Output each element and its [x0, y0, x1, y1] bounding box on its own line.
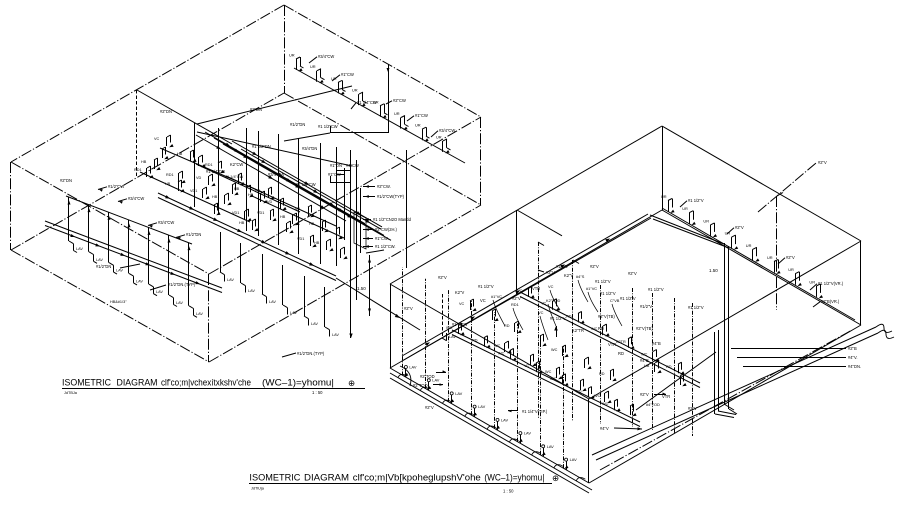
fixture WC-branch-25 (left room) — [287, 221, 294, 233]
pipe: wall riser 8 (left room) — [336, 147, 338, 266]
svg-text:K2"V: K2"V — [564, 273, 573, 278]
svg-text:VC: VC — [480, 298, 486, 303]
fixture LAV-2 (right room) — [426, 279, 440, 391]
svg-text:#2"V: #2"V — [640, 392, 649, 397]
svg-text:RD1: RD1 — [166, 173, 174, 177]
right room: back corner vertical — [662, 126, 664, 210]
svg-text:#2"V(TB): #2"V(TB) — [598, 314, 615, 319]
pipe: second drop pair (right room) — [715, 330, 737, 418]
label #2"V long leader (roof) — [758, 160, 827, 212]
svg-text:#2"CW: #2"CW — [393, 98, 406, 103]
svg-text:VC: VC — [538, 310, 544, 315]
svg-text:DIAGRAM: DIAGRAM — [304, 473, 349, 483]
pipe: ceiling supply header 2 (left room) — [205, 132, 365, 224]
left room: roof edge left-front — [11, 162, 209, 274]
fixture UR-6 (right room) — [767, 255, 781, 274]
fixture UR-8 (left room) — [436, 134, 451, 153]
pipe: wall riser 5 (left room) — [278, 134, 280, 245]
label #1&quot;VC curved leader (right room) — [491, 294, 505, 326]
fixture WC-branch-12 (left room) — [212, 193, 232, 205]
fixture WC-A6 (right room) — [641, 350, 660, 362]
fixture WC-branch-6 (left room) — [234, 185, 254, 197]
left room: partition vertical on back wall — [136, 90, 138, 177]
fixture WC-branch-4 (left room) — [205, 161, 225, 173]
svg-text:UR: UR — [310, 64, 316, 69]
svg-text:RD1: RD1 — [205, 163, 213, 167]
svg-text:K2TR: K2TR — [616, 340, 626, 344]
label #4&quot;S curved leader (right room) — [576, 274, 588, 302]
fixture LAV-8 (right room) — [564, 346, 578, 470]
fixture hook (left room right) — [442, 333, 456, 341]
pipe: CW riser to UR header — [330, 64, 390, 133]
fixture WC-branch-24 (left room) — [255, 187, 275, 199]
svg-text:#2"V: #2"V — [735, 225, 744, 230]
fixture WC-branch-3 (left room) — [199, 155, 206, 167]
fixture LAV-2-1 (left room) — [220, 232, 234, 282]
svg-text:DIAGRAM: DIAGRAM — [117, 378, 158, 388]
svg-text:#1 1/2"V: #1 1/2"V — [550, 316, 566, 321]
pipe: vent riser 7 (right room) — [692, 303, 694, 436]
fixture WC-B6 (right room) — [576, 387, 595, 399]
label RD1 curved leader (right room) — [511, 302, 523, 330]
svg-text:K2"V: K2"V — [455, 290, 464, 295]
svg-text:VD1: VD1 — [297, 237, 304, 241]
fixture WC-B7 (right room) — [602, 399, 621, 411]
svg-text:LAV: LAV — [116, 269, 123, 273]
fixture LAV-7 (left room) — [188, 243, 204, 318]
label #3/4"CW (LAV branch) — [118, 196, 144, 204]
svg-text:#4"DN.: #4"DN. — [848, 364, 861, 369]
pipe: thin riser right (left room) — [406, 150, 408, 268]
pipe: ceiling supply header 3 (left room) — [214, 138, 384, 235]
svg-text:VTR: VTR — [608, 342, 616, 347]
fixture extra-15 (right room) — [680, 374, 687, 386]
fixture WC-branch-2 (left room) — [177, 150, 197, 162]
svg-text:#4"V.: #4"V. — [848, 355, 858, 360]
svg-text:#4"B: #4"B — [640, 358, 649, 363]
svg-text:LAV: LAV — [524, 431, 531, 436]
fixture extra-14 (right room) — [644, 361, 662, 373]
svg-text:#1/2"DN: #1/2"DN — [290, 122, 305, 127]
fixture LAV-5 (right room) — [495, 312, 509, 430]
label #2"V (right room left) — [404, 306, 413, 311]
right room: floor edge back-right — [662, 210, 861, 325]
arrows on LAV header (left room) — [70, 234, 200, 284]
svg-text:LAV: LAV — [76, 247, 83, 251]
svg-text:#2"DN: #2"DN — [160, 109, 172, 114]
right room: left corner vertical — [390, 284, 392, 368]
label #2"B(VR.) (right UR row) — [813, 299, 840, 307]
svg-text:VC: VC — [524, 364, 530, 368]
fixture LAV-3 (left room) — [108, 212, 124, 274]
svg-text:#1 1/2"CN2O Mandd: #1 1/2"CN2O Mandd — [373, 217, 412, 222]
pipe: branch line 4 (left room) — [226, 176, 336, 226]
pipe: main WC drain double line (left room) — [158, 193, 336, 281]
svg-text:WC: WC — [494, 344, 501, 348]
right room: roof edge left-front — [390, 284, 589, 399]
svg-text:HB: HB — [280, 215, 286, 219]
svg-text:#1/2"DN.(TYP): #1/2"DN.(TYP) — [168, 282, 196, 287]
pipe: wall riser 6 (left room) — [298, 138, 300, 254]
svg-text:WC: WC — [591, 327, 598, 331]
svg-text:#1 1/4"CW: #1 1/4"CW — [357, 100, 377, 105]
svg-text:LAV: LAV — [547, 444, 554, 449]
svg-text:#1/2"DN: #1/2"DN — [186, 232, 201, 237]
label #1 1/4"CW (UR row) — [351, 100, 377, 109]
svg-text:1.50: 1.50 — [357, 286, 366, 291]
fixture WC-B4 (right room) — [524, 361, 543, 373]
svg-text:#1 1/2"CW.: #1 1/2"CW. — [375, 244, 396, 249]
title: right isometric diagram caption — [249, 473, 559, 494]
svg-text:WC: WC — [602, 402, 609, 406]
left room: right corner vertical — [480, 117, 482, 205]
svg-text:VC: VC — [154, 137, 160, 141]
svg-text:WC: WC — [550, 377, 557, 381]
fixture LAV-4 (right room) — [472, 301, 486, 417]
fixture WC-branch-28 (left room) — [257, 209, 277, 221]
pipe: branch line 3 (left room) — [196, 164, 300, 212]
fixture UR-6 (left room) — [394, 111, 409, 130]
leader arrows TRD (right room) — [433, 370, 446, 386]
svg-text:#2"V: #2"V — [628, 271, 637, 276]
svg-text:LAV: LAV — [196, 312, 203, 316]
fixture LAV-2-4 (left room) — [283, 265, 298, 315]
svg-text:#1 1/2"CW: #1 1/2"CW — [318, 124, 338, 129]
label VC curved leader (right room) — [548, 284, 560, 310]
svg-text:VTR: VTR — [532, 286, 540, 291]
right room: partition vertical — [516, 210, 518, 294]
right room: right corner vertical — [860, 241, 862, 325]
pipe: vent riser 5 (right room) — [652, 293, 654, 430]
svg-text:#1/2"CW(TYP): #1/2"CW(TYP) — [377, 194, 405, 199]
right room: partition top edge — [517, 210, 562, 236]
fixture UR-1 (left room) — [289, 53, 304, 72]
svg-text:#1 1/2"V: #1 1/2"V — [648, 287, 664, 292]
fixture LAV-5 (left room) — [148, 227, 164, 295]
pipe: vent riser 6 (right room) — [674, 298, 676, 433]
svg-text:HB: HB — [234, 187, 240, 191]
svg-text:RD: RD — [598, 326, 604, 331]
label #1 1/2"V(VR.) (right UR row) — [810, 281, 844, 290]
svg-text:#2"B: #2"B — [848, 346, 857, 351]
svg-text:UR: UR — [746, 243, 752, 248]
svg-text:UR: UR — [661, 194, 667, 199]
vent top elbow 2 (right room) — [564, 260, 579, 278]
svg-text:RD: RD — [666, 365, 672, 369]
pipe: roof vent dash vertical (right room) — [777, 193, 784, 311]
svg-text:RD1: RD1 — [134, 168, 142, 172]
svg-text:#1"CW: #1"CW — [341, 72, 354, 77]
label #4"V bottom (right room) — [600, 426, 642, 431]
svg-text:RD: RD — [472, 339, 478, 343]
title: left isometric diagram caption — [62, 378, 365, 396]
svg-text:#2"V: #2"V — [512, 296, 521, 301]
svg-text:ISOMETRIC: ISOMETRIC — [249, 473, 300, 483]
svg-text:#1/2"CW: #1/2"CW — [108, 184, 124, 189]
label #2"TOD (right room left) — [413, 383, 428, 388]
svg-text:LAV: LAV — [96, 258, 103, 262]
pipe: vent riser 3 (right room) — [600, 285, 602, 424]
svg-text:#1 1/4"V(TIP.): #1 1/4"V(TIP.) — [522, 409, 548, 414]
pipe: vent connector (left room) — [284, 133, 330, 141]
left room: roof edge apex-right — [284, 5, 481, 117]
right room: floor edge front-right — [589, 325, 861, 483]
svg-text:#2"V: #2"V — [438, 275, 447, 280]
fixture WC-branch-5 (left room) — [225, 173, 245, 185]
svg-text:LAV: LAV — [332, 333, 339, 337]
svg-text:#1/2"DN.(TYP): #1/2"DN.(TYP) — [297, 351, 325, 356]
right room: roof edge apex-right — [662, 126, 861, 241]
svg-text:WC: WC — [594, 394, 601, 398]
pipe: trap arcs on LAV header (right room) — [398, 374, 585, 480]
svg-text:LAV: LAV — [409, 365, 416, 370]
pipe: sloped ramp drain (right room) — [592, 324, 894, 460]
svg-text:WC: WC — [551, 348, 558, 352]
svg-text:#1"CW: #1"CW — [415, 113, 428, 118]
fixture extra-12 (right room) — [594, 391, 612, 403]
pipe: branch line 5 (left room) — [252, 196, 344, 238]
svg-text:#2"V: #2"V — [786, 255, 795, 260]
pipe: sloped vent down (left room) — [197, 132, 352, 166]
fixture WC-branch-23 (left room) — [232, 183, 239, 195]
fixture UR-1 (right room) — [661, 194, 675, 213]
label #3/4"CW (LAV branch) — [148, 220, 174, 228]
label #1"CW (UR row) — [332, 72, 354, 81]
svg-text:#3/4"CW: #3/4"CW — [268, 172, 284, 177]
svg-text:#1 1/4"V: #1 1/4"V — [452, 322, 468, 327]
left room: floor edge front-right — [209, 205, 481, 362]
right room: front corner vertical — [588, 399, 590, 483]
label #1 1/4"V(TIP.) (right room) — [508, 409, 548, 414]
svg-text:#4"V: #4"V — [600, 426, 609, 431]
fixture WC-branch-9 (left room) — [134, 166, 154, 178]
svg-text:1.50: 1.50 — [709, 268, 718, 273]
svg-text:#1 1/2"V: #1 1/2"V — [620, 296, 636, 301]
svg-text:JdTlUja: JdTlUja — [251, 487, 265, 491]
pipe: main extension to drop riser (right room) — [650, 215, 729, 248]
label #1/2"DN.(TYP) upper (left room) — [150, 282, 196, 290]
label #2"TOD (right room left) — [420, 374, 435, 379]
svg-text:JdTBJa: JdTBJa — [64, 391, 78, 395]
svg-text:#1 1/2"V: #1 1/2"V — [688, 198, 704, 203]
pipe: wall riser 2 (left room) — [218, 128, 220, 215]
fixture WC-branch-17 (left room) — [295, 205, 315, 217]
arrows on supply main (right room) — [425, 239, 610, 347]
svg-text:C"VB: C"VB — [610, 298, 620, 303]
pipe: sloped collector to drop (right room) — [636, 352, 716, 410]
svg-text:UR: UR — [682, 206, 688, 211]
pipe: WC drain row B (right room) — [452, 330, 640, 427]
fixture WC-branch-7 (left room) — [166, 171, 186, 183]
svg-text:#2"V: #2"V — [590, 264, 599, 269]
label #2"CW (UR row) — [386, 98, 406, 104]
fixture extra-6 (right room) — [585, 357, 592, 369]
svg-text:WC: WC — [545, 370, 552, 374]
svg-text:LAV: LAV — [290, 311, 297, 315]
label #2"V with arrow (right room) — [640, 392, 666, 397]
svg-text:#1 1/2"V: #1 1/2"V — [600, 291, 616, 296]
fixture UR-3 (right room) — [703, 218, 717, 237]
svg-text:#3/4"CW: #3/4"CW — [158, 220, 174, 225]
pipe: wall riser 4 (left room) — [258, 131, 260, 236]
fixture WC-branch-15 (left room) — [267, 198, 287, 210]
fixture extra-5 (right room) — [551, 345, 569, 357]
svg-text:UR: UR — [289, 53, 295, 58]
svg-text:#2"V(TB): #2"V(TB) — [636, 326, 653, 331]
svg-text:UR: UR — [809, 279, 815, 284]
pipe: ceiling supply header 5 (left room) — [232, 141, 382, 227]
svg-text:RD: RD — [566, 314, 572, 318]
pipe: double drop riser (right room) — [724, 243, 737, 414]
fixture UR-4 (right room) — [725, 231, 739, 250]
fixture UR-3 (left room) — [331, 76, 346, 95]
fixture WC-branch-27 (left room) — [214, 203, 221, 215]
svg-text:#2"CW.: #2"CW. — [377, 184, 391, 189]
label #2"V (right room left) — [425, 405, 434, 410]
fixture LAV-2 (left room) — [88, 205, 104, 264]
fixture extra-11 (right room) — [580, 379, 587, 391]
svg-text:#1/2"V: #1/2"V — [640, 304, 652, 309]
fixture LAV-1 (left room) — [68, 197, 84, 253]
label #3/4"CW (UR row) — [309, 54, 334, 63]
pipe: WC drain row A (right room) — [520, 292, 700, 388]
svg-text:#1"VC: #1"VC — [586, 286, 597, 291]
fixture WC-A5 (right room) — [616, 337, 635, 349]
right room: roof edge apex-left — [390, 126, 662, 284]
label K2&quot;TOD curved leader (right room) — [546, 298, 560, 326]
svg-text:(WC–1)=yhomu|: (WC–1)=yhomu| — [262, 378, 334, 388]
fixture LAV-4 (left room) — [128, 220, 144, 285]
fixture WC-branch-18 (left room) — [309, 220, 329, 232]
arrows on main drain (left room) — [165, 195, 314, 266]
svg-text:UR: UR — [703, 218, 709, 223]
pipe: vent riser 4 (right room) — [632, 288, 634, 427]
svg-text:RD1: RD1 — [511, 302, 519, 307]
label #1&quot;VC curved leader (right room) — [586, 286, 598, 312]
svg-text:RD: RD — [576, 390, 582, 394]
fixture WC-branch-21 (left room) — [162, 147, 169, 159]
fixture WC-A1 (right room) — [516, 286, 535, 298]
svg-text:⊕: ⊕ — [348, 378, 355, 388]
pipe: corner drain arc (right room) — [400, 366, 411, 386]
label #1/2"CW (LAV branch) — [98, 184, 124, 192]
svg-text:#2"V: #2"V — [404, 306, 413, 311]
svg-text:WC: WC — [516, 289, 523, 293]
svg-text:clf'co;m|Vb[kpoheglupshV'ohe: clf'co;m|Vb[kpoheglupshV'ohe — [353, 473, 481, 483]
fixture extra-13 (right room) — [630, 404, 637, 416]
fixture extra-4 (right room) — [540, 334, 547, 346]
svg-text:UR: UR — [352, 88, 358, 93]
fixture LAV-2-3 (left room) — [262, 254, 276, 304]
svg-text:K2"CW: K2"CW — [230, 162, 243, 167]
fixture extra-7 (right room) — [599, 369, 617, 381]
svg-text:#2"DN: #2"DN — [60, 178, 72, 183]
svg-text:#1 1/2"V: #1 1/2"V — [595, 279, 611, 284]
left room: roof edge apex-left — [11, 5, 284, 162]
svg-text:VC: VC — [459, 302, 465, 306]
svg-text:#1/2"DN: #1/2"DN — [96, 264, 111, 269]
svg-text:UR: UR — [788, 267, 794, 272]
svg-text:#4"CW: #4"CW — [346, 163, 359, 168]
pipe: riser group with chase (left room) — [330, 150, 366, 338]
svg-text:#1 1/2"V: #1 1/2"V — [478, 284, 494, 289]
svg-text:HB: HB — [644, 364, 650, 368]
right room: floor edge left-front — [390, 368, 589, 483]
fixture extra-3 (right room) — [504, 321, 522, 333]
pipe: wall riser 3 (left room) — [246, 128, 248, 231]
fixture WC-A7 (right room) — [666, 362, 685, 374]
right room: roof edge front-right — [589, 241, 861, 399]
fixture WC-branch-29 (left room) — [314, 239, 334, 251]
svg-text:HB: HB — [141, 160, 147, 164]
pipe: ceiling supply header 6 (left room) — [241, 149, 381, 229]
svg-text:UR: UR — [767, 255, 773, 260]
fixture LAV-2-5 (left room) — [304, 276, 318, 326]
svg-text:LAV: LAV — [156, 290, 163, 294]
svg-text:#4"B: #4"B — [652, 341, 661, 346]
fixture extra-2 (right room) — [492, 309, 499, 321]
fixture WC-branch-26 (left room) — [239, 219, 259, 231]
svg-text:#4"S: #4"S — [576, 274, 585, 279]
svg-text:#3/4"CW: #3/4"CW — [128, 196, 144, 201]
fixture UR-7 (left room) — [415, 123, 430, 142]
svg-text:LAV: LAV — [455, 391, 462, 396]
left room: floor edge left-front — [11, 250, 209, 362]
svg-text:UR: UR — [436, 134, 442, 139]
label #1 1/2"V (right UR row) — [680, 198, 704, 207]
pipe: LAV supply branch (left room) — [66, 196, 192, 244]
svg-text:LAV: LAV — [501, 417, 508, 422]
svg-text:HB: HB — [212, 195, 218, 199]
fixture WC-branch-16 (left room) — [280, 213, 300, 225]
fixture UR-7 (right room) — [788, 267, 802, 286]
fixture WC-branch-20 (left room) — [297, 235, 317, 247]
fixture WC-branch-22 (left room) — [196, 174, 216, 186]
fixture WC-A3 (right room) — [566, 311, 585, 323]
svg-text:K2"TOD: K2"TOD — [546, 298, 560, 303]
pipe: dashed vent (left room right) — [442, 294, 444, 338]
svg-text:#3/4"CW: #3/4"CW — [439, 128, 455, 133]
left room: partition top edge — [137, 90, 232, 144]
fixture extra-10 (right room) — [545, 367, 563, 379]
pipe: vent riser 2 (right room) — [572, 260, 574, 421]
pipe: branch line 1 (left room) — [140, 172, 250, 222]
fixture WC-B3 (right room) — [498, 348, 517, 360]
riser bottom arrow (left room) — [349, 334, 352, 339]
svg-text:WC: WC — [641, 353, 648, 357]
label VC curved leader (right room) — [538, 310, 548, 340]
fixture WC-branch-1 (left room) — [154, 135, 174, 147]
label C&quot;VB curved leader (right room) — [610, 298, 622, 326]
svg-text:HB&#1/3": HB&#1/3" — [110, 300, 127, 304]
fixture WC-A2 (right room) — [541, 299, 560, 311]
svg-text:LAV: LAV — [248, 289, 255, 293]
fixture LAV-6 (left room) — [168, 235, 184, 307]
svg-text:LAV: LAV — [176, 301, 183, 305]
svg-text:⊕: ⊕ — [552, 473, 559, 483]
fixture WC-branch-13 (left room) — [232, 209, 252, 221]
fixture UR-2 (right room) — [682, 206, 696, 225]
svg-text:#1"VC: #1"VC — [491, 294, 502, 299]
svg-text:WC: WC — [498, 351, 505, 355]
fixture LAV-7 (right room) — [541, 335, 555, 457]
fixture WC-B1 (right room) — [446, 323, 465, 335]
svg-text:#4"TOD: #4"TOD — [646, 402, 660, 407]
pipe: wall riser 7 (left room) — [320, 143, 322, 264]
svg-text:UR: UR — [394, 111, 400, 116]
fixture WC-branch-14 (left room) — [248, 191, 268, 203]
pipe: sloped vent up (left room) — [197, 86, 352, 124]
